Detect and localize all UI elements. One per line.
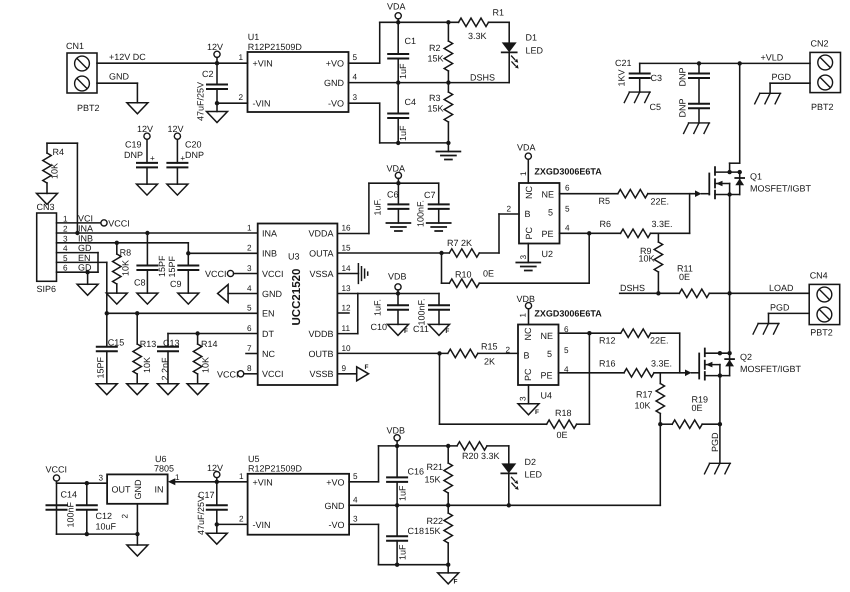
svg-text:1uF: 1uF [398,125,408,141]
svg-text:3: 3 [63,234,68,243]
svg-text:1: 1 [63,214,68,223]
wire U1 +VO to VDA rail [349,22,459,63]
svg-text:F: F [445,328,449,335]
wire 12V to U5 [217,481,248,483]
node VDA mid [387,164,406,186]
pin 4 GND flag [218,285,258,303]
svg-text:3.3E.: 3.3E. [652,219,673,229]
svg-text:MOSFET/IGBT: MOSFET/IGBT [740,364,802,374]
svg-text:C9: C9 [170,279,182,289]
svg-text:PC: PC [523,368,533,381]
svg-text:VDB: VDB [388,272,407,282]
svg-text:5: 5 [548,208,553,218]
svg-text:OUT: OUT [112,485,132,495]
LED D1 [502,22,544,82]
capacitor C20 DNP [167,140,204,185]
svg-text:IN: IN [155,485,164,495]
svg-text:15K: 15K [424,475,440,485]
svg-text:D2: D2 [525,457,537,467]
svg-text:12V: 12V [207,463,223,473]
svg-text:12V: 12V [137,124,153,134]
node 12V C20 [168,124,184,163]
capacitor C6 1uF [373,183,409,223]
wire PGD to CN4 [769,303,810,324]
diode Q2 body [725,353,734,375]
svg-text:-VO: -VO [328,99,344,109]
pin 7 NC stub [246,353,258,355]
resistor R19 0E [658,395,720,429]
svg-text:4: 4 [247,284,252,293]
svg-text:2: 2 [506,205,511,214]
node 12V [207,42,223,65]
svg-text:8: 8 [247,364,252,373]
svg-text:4: 4 [353,495,358,504]
svg-text:SIP6: SIP6 [37,284,57,294]
resistor R13 10K [133,313,156,383]
svg-text:D1: D1 [526,33,538,43]
resistor R15 2K [448,349,518,366]
svg-text:R4: R4 [53,147,65,157]
svg-text:INA: INA [78,224,93,234]
svg-text:PGD: PGD [770,303,790,313]
svg-text:VDB: VDB [517,294,536,304]
ground chassis [753,324,779,335]
svg-text:1: 1 [239,472,244,481]
svg-text:47uF/25V: 47uF/25V [196,496,206,535]
svg-text:-VIN: -VIN [253,520,271,530]
wire PE pin4 [560,219,621,236]
svg-text:C7: C7 [424,190,436,200]
svg-text:2K: 2K [484,357,495,367]
svg-text:GD: GD [78,243,92,253]
resistor R11 0E [677,264,809,298]
capacitor C11 100nF [413,294,449,335]
svg-text:10K: 10K [639,254,655,264]
ground flag F [518,404,539,416]
svg-text:R16: R16 [599,359,616,369]
svg-text:GD: GD [78,263,92,273]
ground chassis [684,123,710,133]
svg-text:ZXGD3006E6TA: ZXGD3006E6TA [534,167,602,177]
wire VCCI bottom rail [57,532,140,536]
svg-text:VDB: VDB [387,426,406,436]
svg-text:1: 1 [175,473,180,482]
svg-text:0E: 0E [483,269,494,279]
svg-text:15K: 15K [424,526,440,536]
wire EN line [105,311,258,315]
svg-text:15: 15 [342,243,352,252]
connector CN2 [810,39,841,113]
dc-dc converter U1 R12P21509D [238,32,357,112]
wire -VIN U5 [217,523,248,525]
ground chassis [624,92,650,103]
svg-text:10K: 10K [635,401,651,411]
node VDA U2 [517,143,536,184]
resistor R21 15K [424,446,452,505]
wire pin13 to VDB rail [337,294,439,334]
wire +VLD rail [640,53,810,66]
svg-text:PBT2: PBT2 [811,102,834,112]
wire EN net vertical [57,261,107,263]
svg-text:VDDA: VDDA [308,229,333,239]
capacitor C12 10uF [77,483,117,534]
ground [37,193,58,204]
svg-text:UCC21520: UCC21520 [291,269,303,326]
svg-text:1: 1 [247,224,252,233]
svg-text:R2: R2 [429,43,441,53]
wire GND from CN1 [97,72,137,103]
ground [106,293,127,304]
ground [127,545,148,556]
wire PGD to CN2 [770,72,810,93]
svg-text:R22: R22 [426,516,443,526]
svg-text:VCCI: VCCI [205,269,227,279]
svg-text:DNP: DNP [678,67,688,86]
svg-text:R10: R10 [455,270,472,280]
svg-text:R12P21509D: R12P21509D [248,42,303,52]
svg-text:3: 3 [98,474,103,483]
transistor Q2 MOSFET [699,349,801,380]
svg-text:ZXGD3006E6TA: ZXGD3006E6TA [534,309,602,319]
gate driver U4 ZXGD3006E6TA [505,309,602,402]
svg-text:1: 1 [238,53,243,62]
svg-text:NC: NC [523,327,533,340]
wire U2 pin3 to earth [527,244,529,263]
svg-text:15PF: 15PF [157,255,167,277]
svg-text:R12: R12 [599,336,616,346]
capacitor C19 DNP [124,140,157,185]
svg-text:+: + [150,154,155,163]
svg-text:GND: GND [325,501,346,511]
svg-text:C2: C2 [202,69,214,79]
wire -VO rail [349,524,448,564]
svg-text:10: 10 [342,344,352,353]
pin 9 VSSB flag F [337,364,368,381]
svg-text:R13: R13 [140,339,157,349]
wire R17 node to GND rail [659,424,661,505]
svg-text:7805: 7805 [154,464,174,474]
svg-text:100nF.: 100nF. [416,200,426,227]
svg-text:5: 5 [353,472,358,481]
svg-text:DT: DT [262,329,274,339]
svg-text:VDA: VDA [387,2,406,12]
svg-text:3.3E.: 3.3E. [651,359,672,369]
svg-text:R3: R3 [429,93,441,103]
svg-text:VDDB: VDDB [308,329,333,339]
svg-text:C5: C5 [650,102,662,112]
svg-text:3: 3 [353,93,358,102]
svg-text:R5: R5 [599,196,611,206]
svg-text:16: 16 [342,224,352,233]
svg-text:C12: C12 [96,511,113,521]
svg-text:DNP: DNP [678,98,688,117]
svg-text:VCCI: VCCI [262,369,284,379]
svg-text:VCCI: VCCI [217,369,239,379]
svg-text:C14: C14 [61,490,78,500]
svg-text:0E: 0E [692,403,703,413]
svg-text:-VIN: -VIN [253,99,271,109]
wire DSHS net top [349,73,510,85]
svg-text:+VLD: +VLD [761,53,784,63]
svg-text:PC: PC [524,226,534,239]
svg-text:-VO: -VO [328,520,344,530]
capacitor C16 1uF [387,446,424,505]
node VDB U4 [517,294,536,325]
svg-text:R14: R14 [201,339,218,349]
connector CN1 [66,41,100,113]
wire GD rows to ground [57,253,99,285]
capacitor C10 1uF [371,294,409,333]
svg-text:NC: NC [262,349,275,359]
svg-text:F: F [404,328,408,335]
capacitor C9 15PF [167,253,198,293]
svg-text:PE: PE [542,229,554,239]
resistor R2 15K [428,20,453,83]
svg-text:B: B [524,351,530,361]
svg-text:VSSA: VSSA [309,269,333,279]
svg-text:100nF.: 100nF. [417,298,427,325]
svg-text:DNP: DNP [124,150,143,160]
svg-text:CN2: CN2 [811,39,829,49]
svg-text:R7 2K: R7 2K [447,238,472,248]
ground earth [427,223,451,231]
svg-text:3: 3 [519,255,528,260]
node 12V bottom [207,463,223,484]
resistor R1 3.3K [459,8,510,42]
wire DSHS LOAD row [620,283,680,295]
svg-text:F: F [454,579,458,586]
svg-text:U6: U6 [155,454,167,464]
ground chassis [705,463,731,474]
wire DT line [168,331,258,335]
capacitor C3 1KV [615,58,662,112]
wire INB net [57,243,258,256]
svg-text:12V: 12V [168,124,184,134]
svg-text:Q1: Q1 [750,172,762,182]
svg-text:+12V DC: +12V DC [109,52,146,62]
wire to U2 pin2 B [499,214,519,253]
svg-text:VSSB: VSSB [309,369,333,379]
svg-text:R12P21509D: R12P21509D [248,464,303,474]
svg-text:1uF: 1uF [398,63,408,79]
capacitor DNP pair [678,63,710,123]
resistor R22 15K [424,505,452,573]
svg-text:C10: C10 [371,322,388,332]
svg-text:C13: C13 [163,338,180,348]
svg-text:5: 5 [564,346,569,355]
svg-text:C19: C19 [125,140,142,150]
ground [167,184,188,195]
svg-text:U5: U5 [248,454,260,464]
resistor R7 2K [447,238,499,257]
svg-text:2: 2 [239,514,244,523]
svg-text:12V: 12V [207,42,223,52]
svg-text:+VO: +VO [326,59,344,69]
svg-text:5: 5 [63,254,68,263]
svg-text:LOAD: LOAD [769,283,794,293]
ground [178,293,199,304]
svg-text:22E.: 22E. [651,197,670,207]
svg-text:10K: 10K [50,163,60,179]
svg-text:Q2: Q2 [740,352,752,362]
svg-text:47uF/25V: 47uF/25V [196,82,206,121]
pin 8 VCCI terminal [217,369,258,379]
node 12V C19 [137,124,153,163]
resistor R12 22E [621,329,680,373]
svg-text:U3: U3 [288,252,300,262]
node VDB mid [388,272,407,296]
ground [127,103,148,114]
svg-text:R6: R6 [600,219,612,229]
svg-text:3: 3 [353,514,358,523]
svg-text:100nF: 100nF [66,501,76,527]
wire U1 -VIN [217,102,248,104]
svg-text:B: B [525,209,531,219]
svg-text:VDA: VDA [517,143,536,153]
svg-text:5: 5 [353,53,358,62]
svg-text:1uF.: 1uF. [373,198,383,215]
svg-text:1: 1 [519,171,528,176]
svg-text:2: 2 [121,514,130,519]
svg-text:15PF: 15PF [167,255,177,277]
wire U4 pin3 to flag [528,385,530,404]
svg-text:NE: NE [542,190,555,200]
dc-dc converter U5 R12P21509D [239,454,358,535]
svg-text:0E: 0E [557,430,568,440]
svg-text:DSHS: DSHS [620,283,645,293]
svg-text:R17: R17 [636,390,653,400]
arrow into U6 IN [168,478,217,485]
svg-text:C1: C1 [405,36,417,46]
svg-text:R21: R21 [426,462,443,472]
resistor R14 10K [193,334,217,384]
gate arrow Q1 [695,190,709,197]
ground flag F [388,324,409,335]
wire U1 -VO rail [349,103,449,151]
svg-text:C8: C8 [134,278,146,288]
svg-text:OUTA: OUTA [309,248,333,258]
svg-text:4: 4 [353,73,358,82]
pin 12 stub [337,312,349,314]
wire VCI row to VCCI node [57,218,130,228]
svg-text:INB: INB [78,233,93,243]
svg-text:10K: 10K [121,260,131,276]
svg-text:C4: C4 [405,97,417,107]
svg-text:R20 3.3K: R20 3.3K [462,451,500,461]
svg-text:12: 12 [342,303,352,312]
svg-text:VCCI: VCCI [46,465,68,475]
svg-text:10K: 10K [201,357,211,373]
wire Q2 source down PGD [710,376,722,464]
svg-text:11: 11 [342,324,351,333]
node VDA top [387,2,406,25]
svg-text:NC: NC [524,186,534,199]
ground [207,112,228,123]
svg-text:14: 14 [342,264,352,273]
svg-text:PGD: PGD [772,72,792,82]
LED D2 [501,457,542,505]
resistor R20 3.3K [446,442,509,464]
pin 3 VCCI terminal [205,269,258,279]
svg-text:6: 6 [565,184,570,193]
svg-text:DNP: DNP [185,150,204,160]
svg-text:2: 2 [63,225,68,234]
wire U6 GND pin2 [136,504,138,545]
svg-text:U4: U4 [541,391,553,401]
svg-text:F: F [535,409,539,416]
resistor R6 3.3E [621,219,690,238]
svg-text:C20: C20 [185,140,202,150]
svg-text:F: F [365,364,369,371]
svg-text:3.3K: 3.3K [468,31,487,41]
svg-text:+VIN: +VIN [253,59,273,69]
svg-text:9: 9 [342,364,347,373]
svg-text:1: 1 [519,313,528,318]
wire GND mid rail [349,503,660,507]
ground [137,293,158,304]
svg-text:PE: PE [541,371,553,381]
svg-text:U1: U1 [248,32,260,42]
wire Q1 source down [729,195,731,294]
capacitor C18 1uF [387,505,424,567]
capacitor C15 15PF [96,313,125,383]
svg-text:1uF: 1uF [398,485,408,501]
svg-text:VCCI: VCCI [108,218,130,228]
svg-text:7: 7 [247,344,252,353]
svg-text:1uF: 1uF [398,544,408,560]
svg-text:4: 4 [63,244,68,253]
svg-text:+VIN: +VIN [253,478,273,488]
svg-text:15PF: 15PF [96,356,106,378]
svg-text:5: 5 [547,349,552,359]
svg-text:CN1: CN1 [66,41,84,51]
ground [96,384,117,395]
svg-text:VCCI: VCCI [262,269,284,279]
svg-text:INB: INB [262,248,277,258]
svg-text:2: 2 [247,243,252,252]
wire VDDA pin16 to VDA rail [337,183,438,233]
svg-text:GND: GND [133,479,143,500]
capacitor C7 100nF [416,183,449,227]
capacitor C4 1uF [388,83,416,145]
svg-text:C21: C21 [615,58,632,68]
svg-text:22E.: 22E. [650,336,669,346]
svg-text:PBT2: PBT2 [810,328,833,338]
gate driver U2 ZXGD3006E6TA [506,167,602,260]
svg-text:R15: R15 [481,342,498,352]
svg-text:5: 5 [247,303,252,312]
connector CN3 SIP6 [37,202,94,294]
ground flag F [429,324,450,335]
wire NE pin6 gate line [560,194,618,206]
svg-text:R1: R1 [493,8,505,18]
ground earth [516,263,540,271]
svg-text:LED: LED [525,470,543,480]
svg-text:1uF.: 1uF. [373,299,383,316]
svg-text:C18: C18 [408,526,425,536]
svg-text:15K: 15K [428,104,444,114]
ground [137,184,158,195]
wire R6 to gate node [689,194,691,234]
svg-text:3: 3 [519,396,528,401]
svg-text:INA: INA [262,229,277,239]
gate driver U3 UCC21520 [247,224,351,386]
svg-text:6: 6 [247,324,252,333]
ground earth [386,223,410,231]
svg-text:NE: NE [541,331,554,341]
transistor Q1 MOSFET [709,167,811,198]
wire NE pin6 U4 [559,331,621,346]
